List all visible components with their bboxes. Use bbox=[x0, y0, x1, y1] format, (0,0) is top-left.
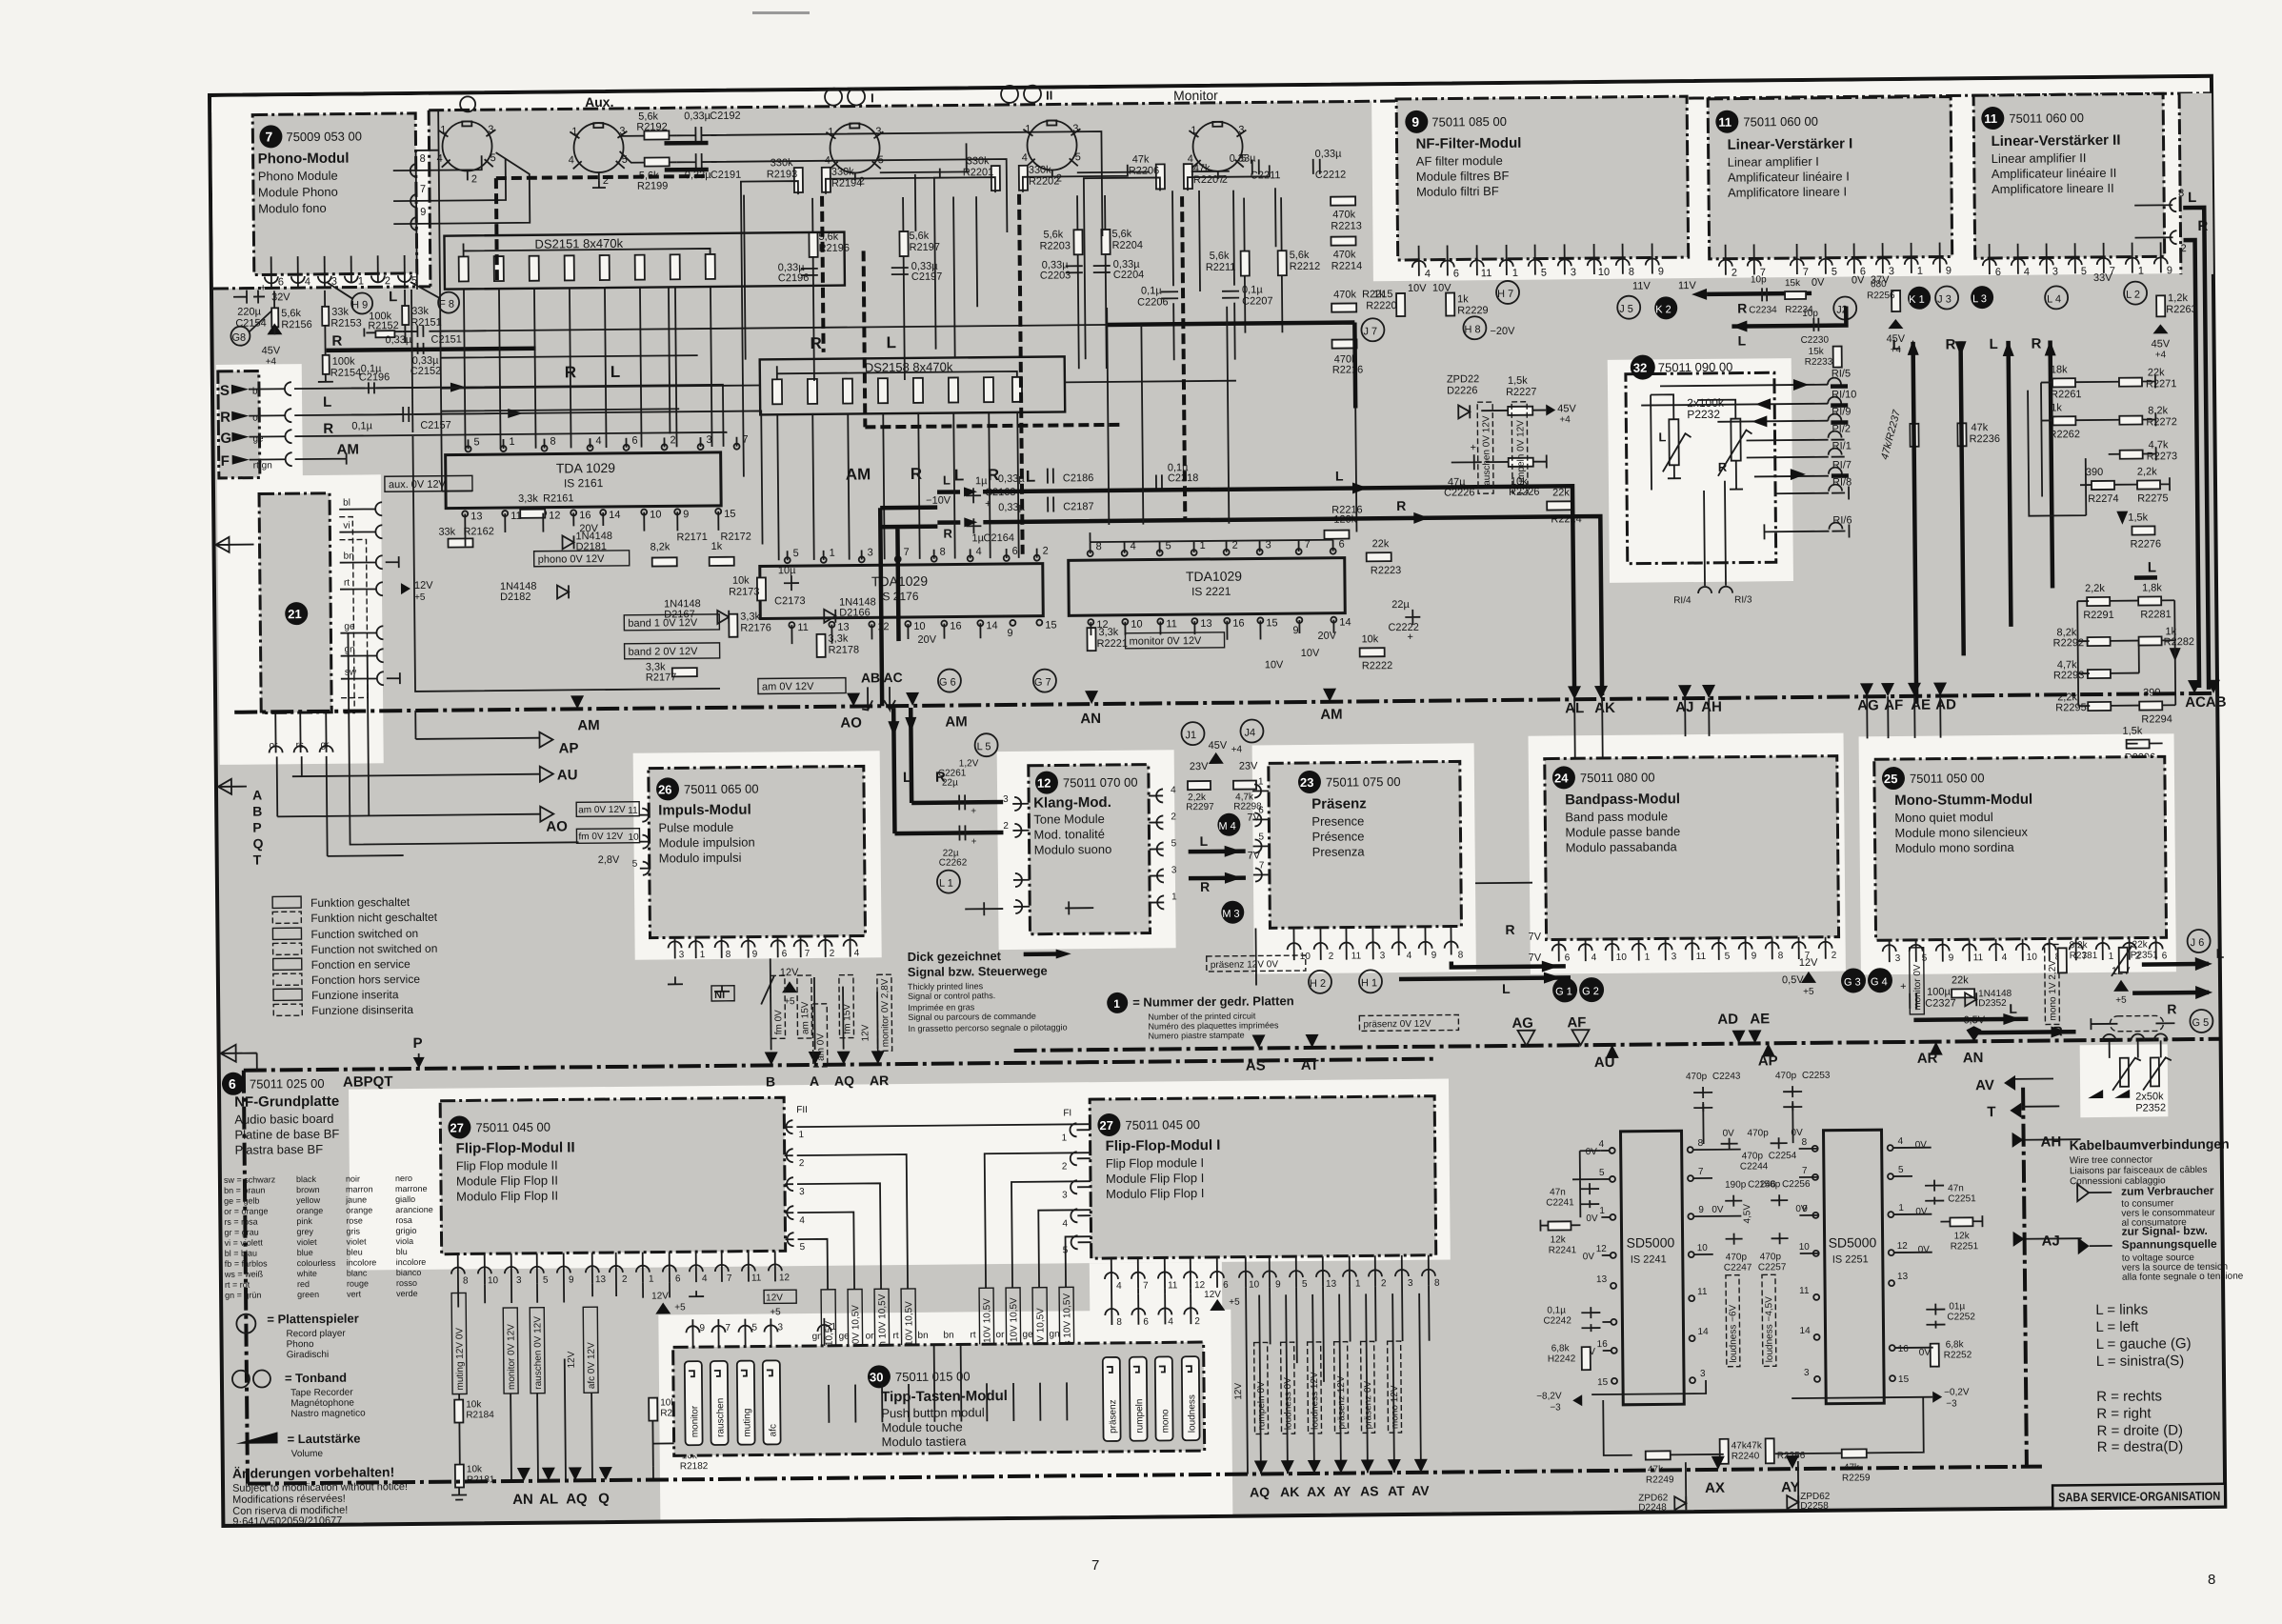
svg-text:4: 4 bbox=[2024, 267, 2030, 278]
node J1 bbox=[1181, 722, 1204, 745]
svg-text:2: 2 bbox=[1194, 1316, 1200, 1327]
plate number badge 11b bbox=[1981, 107, 2004, 130]
svg-text:loudness 0V: loudness 0V bbox=[1283, 1377, 1294, 1430]
svg-text:1k: 1k bbox=[1457, 293, 1469, 305]
svg-text:B: B bbox=[252, 804, 262, 819]
svg-text:am 0V: am 0V bbox=[815, 1033, 826, 1061]
svg-text:5: 5 bbox=[1302, 1279, 1308, 1290]
svg-text:R2274: R2274 bbox=[2088, 493, 2119, 505]
resistor R2177 bbox=[672, 668, 697, 676]
svg-text:monitor 0V: monitor 0V bbox=[1912, 964, 1923, 1011]
svg-text:R2151: R2151 bbox=[410, 317, 442, 329]
svg-text:75011 080 00: 75011 080 00 bbox=[1580, 770, 1655, 785]
svg-text:Wire tree connector: Wire tree connector bbox=[2070, 1154, 2153, 1166]
resistor R2224 bbox=[1547, 501, 1571, 510]
svg-text:1: 1 bbox=[649, 1274, 654, 1285]
svg-text:16: 16 bbox=[1597, 1339, 1609, 1350]
FF-I bottom pins bbox=[1105, 1255, 1435, 1289]
wire R row bbox=[294, 413, 498, 415]
wires FF-II to FF-I corridor bbox=[456, 1121, 1430, 1482]
resistor R2176 bbox=[729, 614, 737, 637]
wire pin8 to DIN Q bbox=[393, 155, 482, 170]
svg-text:75011 070 00: 75011 070 00 bbox=[1063, 775, 1138, 791]
capacitor C2173 bbox=[784, 575, 799, 591]
svg-text:Klang-Mod.: Klang-Mod. bbox=[1033, 794, 1111, 812]
svg-text:Modulo fono: Modulo fono bbox=[258, 201, 327, 216]
svg-text:6: 6 bbox=[782, 949, 788, 959]
svg-text:IS 2241: IS 2241 bbox=[1631, 1253, 1667, 1265]
svg-text:680: 680 bbox=[1871, 279, 1887, 290]
plate number badge 27 bbox=[448, 1115, 470, 1138]
capacitor C2327 bbox=[1910, 993, 1916, 1009]
svg-text:A: A bbox=[252, 788, 262, 803]
svg-text:K 2: K 2 bbox=[1655, 304, 1671, 315]
svg-text:R2233: R2233 bbox=[1805, 357, 1833, 368]
svg-text:J 6: J 6 bbox=[2191, 937, 2205, 949]
svg-text:Magnétophone: Magnétophone bbox=[290, 1398, 354, 1410]
svg-text:4: 4 bbox=[799, 1215, 805, 1226]
node H2 bbox=[1309, 971, 1331, 993]
svg-text:32: 32 bbox=[1633, 361, 1648, 375]
wires block32 to terminals bbox=[1641, 385, 1830, 587]
svg-text:band 2 0V 12V: band 2 0V 12V bbox=[629, 646, 699, 658]
svg-text:L: L bbox=[2009, 1001, 2017, 1016]
svg-text:1: 1 bbox=[1917, 266, 1923, 277]
resistor R2249 bbox=[1646, 1451, 1671, 1459]
resistor R2162 bbox=[448, 538, 472, 547]
svg-text:J4: J4 bbox=[1244, 727, 1255, 738]
svg-text:R: R bbox=[1505, 922, 1514, 937]
svg-text:8: 8 bbox=[726, 950, 731, 960]
svg-text:B: B bbox=[766, 1073, 775, 1089]
pot P2351 bbox=[2119, 948, 2128, 972]
thick R line bbox=[327, 349, 536, 351]
node L1 bbox=[937, 870, 960, 892]
svg-text:9: 9 bbox=[1007, 628, 1012, 639]
svg-text:R2154: R2154 bbox=[330, 367, 362, 378]
svg-text:13: 13 bbox=[1200, 618, 1211, 630]
capacitor C2157 bbox=[403, 407, 409, 422]
svg-text:R: R bbox=[1200, 879, 1210, 894]
svg-text:Imprimée en gras: Imprimée en gras bbox=[908, 1002, 975, 1012]
svg-text:3: 3 bbox=[1003, 794, 1009, 805]
module 11b bottom pins bbox=[1983, 242, 2168, 274]
svg-text:G 5: G 5 bbox=[2192, 1017, 2209, 1029]
node J3 bbox=[1935, 286, 1958, 309]
svg-text:ABPQT: ABPQT bbox=[343, 1073, 393, 1091]
svg-text:7: 7 bbox=[265, 129, 272, 144]
svg-text:R2276: R2276 bbox=[2131, 538, 2162, 550]
svg-text:R2204: R2204 bbox=[1112, 240, 1144, 251]
45V+4 under R2263 bbox=[2152, 324, 2168, 333]
capacitor C2226 bbox=[1451, 454, 1482, 470]
dashed signal wires bbox=[496, 171, 1186, 559]
svg-text:3: 3 bbox=[516, 1275, 522, 1286]
svg-text:präsenz 12V 0V: präsenz 12V 0V bbox=[1211, 959, 1279, 971]
svg-text:blanc: blanc bbox=[347, 1268, 368, 1277]
svg-text:5: 5 bbox=[1725, 952, 1731, 962]
svg-text:0,1µ: 0,1µ bbox=[1547, 1305, 1566, 1315]
svg-text:C2247: C2247 bbox=[1724, 1263, 1752, 1273]
svg-text:= Tonband: = Tonband bbox=[285, 1371, 347, 1386]
svg-text:monitor: monitor bbox=[690, 1405, 700, 1437]
svg-text:7: 7 bbox=[1091, 1557, 1099, 1574]
svg-text:R2381: R2381 bbox=[2070, 951, 2098, 961]
svg-text:C2206: C2206 bbox=[1137, 296, 1169, 308]
svg-text:Fonction en service: Fonction en service bbox=[311, 957, 411, 972]
svg-text:ACAB: ACAB bbox=[2185, 694, 2227, 711]
right edge cluster: resistor R2381 bbox=[2058, 948, 2067, 972]
svg-text:11: 11 bbox=[1166, 618, 1177, 630]
AV T arrows bbox=[2004, 1075, 2021, 1118]
svg-text:4: 4 bbox=[305, 276, 310, 288]
vertical strip praesenz 12V bbox=[1334, 1342, 1349, 1434]
capacitor C2152 bbox=[418, 343, 424, 354]
svg-text:5: 5 bbox=[543, 1275, 549, 1286]
12V +5 under FF-I bbox=[1210, 1299, 1225, 1311]
node G6 bbox=[938, 669, 961, 692]
svg-text:0,1µ: 0,1µ bbox=[1141, 285, 1162, 296]
svg-text:1: 1 bbox=[2109, 952, 2114, 962]
resistor R2236 bbox=[1957, 423, 1966, 446]
svg-text:2: 2 bbox=[830, 949, 835, 959]
svg-text:IS 2161: IS 2161 bbox=[564, 476, 604, 490]
svg-text:24: 24 bbox=[1554, 771, 1569, 785]
svg-text:5: 5 bbox=[751, 1323, 757, 1333]
svg-text:23V: 23V bbox=[1190, 761, 1209, 772]
svg-text:R2211: R2211 bbox=[1206, 262, 1236, 273]
resistor R2214 bbox=[1331, 236, 1355, 245]
capacitor C2203 bbox=[1066, 266, 1083, 272]
svg-text:Amplificateur linéaire II: Amplificateur linéaire II bbox=[1992, 166, 2117, 181]
svg-text:0,33µ: 0,33µ bbox=[1230, 152, 1257, 164]
svg-text:75011 060 00: 75011 060 00 bbox=[1743, 114, 1818, 130]
svg-text:75011 045 00: 75011 045 00 bbox=[475, 1120, 550, 1135]
svg-text:2: 2 bbox=[471, 173, 477, 185]
svg-text:AD: AD bbox=[1717, 1012, 1738, 1028]
svg-text:L: L bbox=[903, 770, 911, 786]
vertical strip rumpeln 0V 12V bbox=[1254, 1342, 1269, 1434]
svg-text:9: 9 bbox=[420, 207, 426, 218]
svg-text:afc 0V 12V: afc 0V 12V bbox=[587, 1342, 597, 1389]
svg-text:vi: vi bbox=[343, 521, 350, 531]
svg-text:L 2: L 2 bbox=[2126, 290, 2140, 301]
svg-text:75011 090 00: 75011 090 00 bbox=[1658, 360, 1733, 375]
svg-text:22µ: 22µ bbox=[1391, 599, 1410, 611]
svg-text:R2282: R2282 bbox=[2164, 636, 2195, 648]
IC2 bottom pins 11 13 12 10 16 14 9 15 bbox=[789, 620, 1042, 629]
wires SD area bbox=[1571, 1098, 2084, 1511]
svg-text:10: 10 bbox=[1799, 1242, 1811, 1253]
svg-text:bianco: bianco bbox=[396, 1268, 422, 1277]
svg-text:Flip-Flop-Modul I: Flip-Flop-Modul I bbox=[1106, 1137, 1221, 1154]
svg-text:P2232: P2232 bbox=[1687, 408, 1720, 421]
svg-text:AX: AX bbox=[1705, 1480, 1725, 1496]
svg-text:R: R bbox=[1396, 498, 1406, 513]
S wire pin bbox=[249, 389, 286, 459]
svg-text:10: 10 bbox=[628, 832, 639, 843]
svg-text:6,8k: 6,8k bbox=[1946, 1339, 1965, 1350]
svg-text:marron: marron bbox=[346, 1184, 373, 1193]
svg-text:45V: 45V bbox=[1886, 333, 1905, 345]
svg-text:J 7: J 7 bbox=[1363, 326, 1377, 337]
svg-text:11: 11 bbox=[797, 622, 809, 633]
svg-text:4: 4 bbox=[1425, 269, 1431, 280]
svg-text:9: 9 bbox=[752, 950, 758, 960]
svg-text:33V: 33V bbox=[2093, 272, 2112, 284]
resistor R2183 bbox=[649, 1398, 657, 1421]
resistor R2292 bbox=[2088, 637, 2111, 646]
svg-text:16: 16 bbox=[1232, 618, 1244, 630]
svg-text:C2173: C2173 bbox=[774, 595, 806, 607]
12V +5 at pin12 box bbox=[764, 1290, 796, 1303]
module 32 white box border bbox=[1626, 372, 1776, 563]
module 26 pin 5 bbox=[643, 862, 650, 875]
resistor R2256 bbox=[1892, 291, 1900, 311]
svg-text:H 7: H 7 bbox=[1497, 289, 1513, 300]
pins or rs gr bbox=[270, 746, 333, 753]
svg-text:C2242: C2242 bbox=[1543, 1315, 1571, 1326]
resistor R2234 bbox=[1785, 291, 1806, 299]
svg-text:präsenz 0V: präsenz 0V bbox=[1363, 1380, 1373, 1429]
svg-text:4: 4 bbox=[1599, 1139, 1605, 1150]
svg-text:2: 2 bbox=[622, 1274, 628, 1285]
resistor R2181 bbox=[455, 1465, 464, 1488]
boxed label monitor bbox=[1125, 632, 1224, 649]
svg-text:R: R bbox=[943, 527, 952, 541]
svg-text:6: 6 bbox=[1258, 805, 1264, 815]
svg-text:L 3: L 3 bbox=[1972, 293, 1987, 305]
svg-text:470k: 470k bbox=[1332, 209, 1355, 220]
DIN socket Aux bbox=[570, 123, 628, 181]
svg-text:11V: 11V bbox=[1632, 280, 1651, 291]
plate number badge 24 bbox=[1552, 766, 1575, 789]
boxed label aux bbox=[385, 475, 472, 491]
capacitor C2218 bbox=[1156, 474, 1162, 490]
svg-text:RI/4: RI/4 bbox=[1673, 595, 1691, 606]
plate number badge 30 bbox=[868, 1365, 891, 1388]
vertical labels under module 26: fm 0V bbox=[771, 975, 786, 1038]
svg-text:pink: pink bbox=[296, 1216, 312, 1226]
svg-text:C2327: C2327 bbox=[1925, 997, 1956, 1009]
terminal RI/6 bbox=[1829, 523, 1842, 530]
svg-text:ge: ge bbox=[1022, 1330, 1033, 1340]
SD2 right pins bbox=[1888, 1145, 1895, 1381]
svg-text:alla fonte segnale o tensione: alla fonte segnale o tensione bbox=[2122, 1272, 2244, 1283]
svg-text:C2254: C2254 bbox=[1769, 1151, 1797, 1161]
svg-text:7: 7 bbox=[904, 547, 910, 558]
svg-text:470k: 470k bbox=[1333, 289, 1356, 300]
svg-text:7V: 7V bbox=[1529, 952, 1542, 964]
svg-text:R2203: R2203 bbox=[1040, 240, 1071, 251]
svg-text:Presence: Presence bbox=[1311, 813, 1364, 829]
plate number badge 32 bbox=[1631, 354, 1655, 379]
svg-text:L: L bbox=[1658, 430, 1666, 444]
svg-text:1,2V: 1,2V bbox=[959, 758, 979, 769]
svg-text:8: 8 bbox=[1802, 1137, 1808, 1148]
ground at pin4 bbox=[689, 1291, 704, 1296]
svg-text:rt = rot: rt = rot bbox=[225, 1280, 250, 1290]
svg-text:AO: AO bbox=[546, 818, 568, 834]
svg-text:D2352: D2352 bbox=[1978, 998, 2007, 1009]
boxed fm label bbox=[576, 829, 639, 844]
svg-text:gn: gn bbox=[1049, 1329, 1059, 1339]
svg-text:R2213: R2213 bbox=[1331, 220, 1362, 231]
wire F row bbox=[295, 453, 347, 466]
bus arrows AN AL AQ Q bbox=[517, 1467, 612, 1481]
svg-text:grigio: grigio bbox=[395, 1226, 416, 1235]
svg-text:+4: +4 bbox=[266, 356, 277, 367]
svg-text:10: 10 bbox=[650, 509, 661, 520]
capacitor C2191 bbox=[677, 153, 717, 170]
diode ZPD62 D2258 bbox=[1787, 1495, 1798, 1509]
svg-text:−3: −3 bbox=[1550, 1402, 1561, 1413]
svg-text:L: L bbox=[1990, 336, 1998, 352]
svg-text:3,3k: 3,3k bbox=[1098, 627, 1118, 638]
module 23 left pins 1 6 5 7 bbox=[1254, 784, 1262, 881]
resistor R2172 bbox=[710, 557, 734, 566]
svg-text:R2193: R2193 bbox=[767, 169, 798, 180]
svg-text:L = sinistra(S): L = sinistra(S) bbox=[2096, 1353, 2185, 1370]
zum Verbraucher symbol bbox=[2077, 1184, 2112, 1201]
svg-text:zur Signal- bzw.: zur Signal- bzw. bbox=[2121, 1224, 2207, 1238]
svg-text:5: 5 bbox=[1541, 268, 1547, 279]
resistor R2296 bbox=[2127, 739, 2150, 748]
svg-text:9: 9 bbox=[2167, 265, 2172, 276]
svg-text:Kabelbaumverbindungen: Kabelbaumverbindungen bbox=[2070, 1136, 2230, 1153]
svg-text:Modulo Flip Flop II: Modulo Flip Flop II bbox=[456, 1189, 558, 1204]
svg-text:IS 2221: IS 2221 bbox=[1191, 585, 1231, 598]
capacitor C2151 bbox=[402, 325, 486, 337]
svg-text:AF: AF bbox=[1567, 1014, 1586, 1031]
svg-text:colourless: colourless bbox=[297, 1258, 336, 1268]
module 30 Tipp-Tasten block bbox=[673, 1342, 1205, 1455]
svg-text:R2216: R2216 bbox=[1332, 364, 1364, 375]
push button praesenz bbox=[1103, 1357, 1121, 1441]
svg-text:Phono Module: Phono Module bbox=[258, 169, 338, 184]
module 27 Flip-Flop-Modul II block bbox=[440, 1097, 786, 1253]
svg-text:45V: 45V bbox=[262, 345, 281, 356]
svg-text:M 3: M 3 bbox=[1222, 909, 1239, 920]
svg-text:6: 6 bbox=[278, 276, 284, 288]
svg-text:AV: AV bbox=[1411, 1483, 1430, 1498]
svg-text:12V: 12V bbox=[651, 1291, 669, 1301]
svg-text:Spannungsquelle: Spannungsquelle bbox=[2122, 1237, 2217, 1252]
vertical strip loudness 0V 12V bbox=[1281, 1342, 1295, 1434]
svg-text:4: 4 bbox=[1407, 951, 1412, 961]
svg-text:grey: grey bbox=[296, 1227, 313, 1236]
svg-text:Linear amplifier I: Linear amplifier I bbox=[1728, 154, 1819, 170]
svg-text:präsenz 12V: präsenz 12V bbox=[1336, 1375, 1348, 1430]
vertical strip rumpeln bbox=[1006, 1288, 1021, 1383]
svg-text:bn = braun: bn = braun bbox=[224, 1185, 265, 1194]
svg-text:Module filtres BF: Module filtres BF bbox=[1416, 169, 1510, 184]
svg-text:or: or bbox=[865, 1331, 874, 1341]
svg-text:J 5: J 5 bbox=[1619, 304, 1633, 315]
svg-text:5: 5 bbox=[1832, 267, 1837, 278]
svg-text:SABA SERVICE-ORGANISATION: SABA SERVICE-ORGANISATION bbox=[2058, 1489, 2220, 1505]
svg-text:R2292: R2292 bbox=[2053, 637, 2085, 649]
svg-text:R2178: R2178 bbox=[829, 644, 860, 655]
svg-text:D2258: D2258 bbox=[1800, 1501, 1829, 1512]
svg-text:R2273: R2273 bbox=[2147, 451, 2178, 462]
svg-text:2: 2 bbox=[1381, 1278, 1387, 1289]
svg-text:Amplificatore lineare I: Amplificatore lineare I bbox=[1728, 185, 1847, 200]
wire pin9 bbox=[393, 152, 530, 224]
svg-text:rosa: rosa bbox=[395, 1215, 412, 1225]
svg-text:loudness 12V: loudness 12V bbox=[1310, 1372, 1321, 1430]
svg-text:Volume: Volume bbox=[291, 1449, 324, 1459]
12V +5 supply left of G3 bbox=[1801, 972, 1816, 983]
svg-text:Fonction hors service: Fonction hors service bbox=[311, 972, 421, 987]
svg-text:1: 1 bbox=[1025, 124, 1031, 135]
wire pin7 bbox=[393, 159, 506, 201]
svg-text:3: 3 bbox=[2052, 266, 2058, 277]
resistor R2182 bbox=[680, 1439, 703, 1448]
svg-text:R2220: R2220 bbox=[1366, 300, 1397, 311]
svg-text:5: 5 bbox=[1258, 832, 1264, 842]
svg-text:sw: sw bbox=[345, 668, 357, 678]
svg-text:6,8k: 6,8k bbox=[1551, 1343, 1571, 1353]
svg-text:R2263: R2263 bbox=[2166, 304, 2197, 315]
svg-text:Tipp-Tasten-Modul: Tipp-Tasten-Modul bbox=[881, 1388, 1008, 1405]
svg-text:8: 8 bbox=[1116, 1317, 1122, 1328]
svg-text:+: + bbox=[971, 806, 976, 816]
svg-text:13: 13 bbox=[1596, 1274, 1608, 1285]
svg-text:ZPD22: ZPD22 bbox=[1447, 373, 1479, 385]
push button rauschen bbox=[711, 1361, 729, 1445]
svg-text:Record player: Record player bbox=[286, 1329, 346, 1340]
node G3 G4 bbox=[1841, 968, 1866, 992]
svg-text:C2197: C2197 bbox=[911, 271, 943, 283]
svg-text:Amplificateur linéaire I: Amplificateur linéaire I bbox=[1728, 169, 1850, 184]
resistor R2211 bbox=[1241, 251, 1250, 276]
svg-text:AQ: AQ bbox=[1250, 1484, 1270, 1499]
L R vertical thick wires with arrows bbox=[1913, 341, 1965, 703]
svg-text:jaune: jaune bbox=[345, 1194, 367, 1204]
12V +5 arrow at rt pin bbox=[401, 583, 410, 594]
svg-text:3: 3 bbox=[1671, 952, 1677, 962]
capacitor C2246 bbox=[1725, 1195, 1742, 1207]
node AU bbox=[540, 767, 553, 782]
svg-text:7: 7 bbox=[1259, 860, 1265, 871]
svg-text:1: 1 bbox=[358, 275, 364, 287]
svg-text:AH: AH bbox=[2041, 1133, 2062, 1150]
svg-text:Tape Recorder: Tape Recorder bbox=[290, 1388, 353, 1399]
IC3 top pins 8 4 5 1 2 3 7 6 bbox=[1088, 549, 1336, 557]
main wires horizontal runs bbox=[349, 101, 1358, 692]
svg-text:16: 16 bbox=[1898, 1344, 1910, 1354]
svg-text:33k: 33k bbox=[411, 306, 429, 317]
svg-text:AP: AP bbox=[559, 740, 579, 756]
svg-text:9: 9 bbox=[1949, 952, 1954, 963]
svg-text:3: 3 bbox=[868, 547, 873, 558]
vertical label am 15V bbox=[797, 975, 812, 1038]
connector Q (record player) bbox=[460, 96, 475, 111]
svg-text:4: 4 bbox=[1898, 1136, 1904, 1147]
resistor R2222 bbox=[1360, 648, 1385, 656]
arrows on L R rows bbox=[450, 382, 523, 419]
svg-text:or = orange: or = orange bbox=[224, 1206, 268, 1215]
svg-text:190p: 190p bbox=[1725, 1180, 1747, 1191]
svg-text:C2222: C2222 bbox=[1388, 622, 1419, 633]
module 11 Linear-Verstärker II block bbox=[1973, 93, 2165, 258]
svg-text:2: 2 bbox=[1043, 546, 1049, 557]
svg-text:R2192: R2192 bbox=[636, 121, 668, 132]
svg-text:R = droite (D): R = droite (D) bbox=[2096, 1422, 2183, 1439]
node K2 bbox=[1654, 296, 1677, 319]
svg-text:P2351: P2351 bbox=[2131, 950, 2158, 960]
